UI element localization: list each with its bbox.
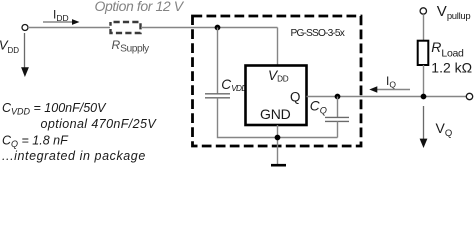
arrow VQ voltage (down) bbox=[423, 106, 425, 140]
wire CVDD bottom to ground rail bbox=[218, 98, 338, 138]
node Vpullup terminal bbox=[420, 8, 426, 14]
node junction dot ground rail bbox=[275, 135, 281, 141]
wire Vpullup to RLoad bbox=[423, 14, 425, 41]
svg-text:optional 470nF/25V: optional 470nF/25V bbox=[41, 117, 158, 131]
wire RSupply to IC VDD node bbox=[141, 27, 278, 29]
arrow IDD current (right) bbox=[43, 21, 73, 23]
svg-text:Option for 12 V: Option for 12 V bbox=[95, 0, 185, 14]
node output terminal bbox=[466, 93, 472, 99]
svg-text:...integrated in package: ...integrated in package bbox=[2, 149, 146, 163]
resistor RLoad bbox=[418, 41, 429, 65]
wire IC GND pin down to ground bbox=[277, 125, 279, 164]
svg-text:GND: GND bbox=[260, 106, 291, 122]
node VDD input terminal bbox=[22, 25, 28, 31]
capacitor CQ bbox=[325, 116, 349, 118]
op IC body PG-SSO bbox=[246, 66, 307, 126]
wire IC VDD pin up to top rail bbox=[277, 28, 279, 66]
wire junction down to CVDD bbox=[217, 28, 219, 94]
node junction dot VDD rail bbox=[215, 25, 221, 31]
ground symbol bbox=[271, 164, 286, 167]
wire VDD terminal to RSupply bbox=[28, 27, 110, 29]
resistor RSupply (optional, dashed) bbox=[111, 22, 141, 33]
node junction dot output bbox=[421, 94, 427, 100]
wire Q pin to output bbox=[307, 96, 467, 98]
capacitor CVDD bbox=[205, 93, 230, 95]
svg-text:Q: Q bbox=[290, 89, 300, 104]
arrow IQ current (left) bbox=[376, 89, 410, 91]
wire CQ top bbox=[337, 97, 339, 118]
arrow VDD voltage (down) bbox=[24, 33, 26, 69]
svg-text:1.2 kΩ: 1.2 kΩ bbox=[431, 60, 472, 76]
svg-text:PG-SSO-3-5x: PG-SSO-3-5x bbox=[291, 28, 345, 39]
dashed box package boundary bbox=[193, 16, 362, 146]
wire RLoad to Q rail bbox=[423, 65, 425, 97]
node junction dot CQ bbox=[335, 94, 341, 100]
wire CQ bottom to ground rail bbox=[337, 121, 339, 137]
